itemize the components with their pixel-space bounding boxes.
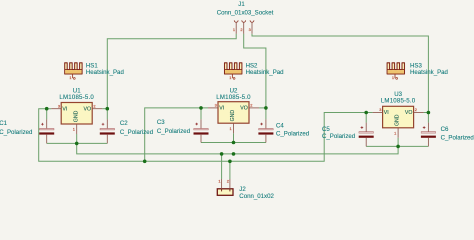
svg-text:3: 3 xyxy=(379,107,381,112)
svg-text:GND: GND xyxy=(395,114,401,126)
heatsink HS3 xyxy=(387,63,404,80)
svg-text:VI: VI xyxy=(219,106,224,112)
capacitor C3 xyxy=(194,119,209,142)
wire C4 top lead xyxy=(265,108,267,120)
svg-text:3: 3 xyxy=(58,103,60,108)
wire C2 top lead xyxy=(106,109,108,120)
pin U1 GND (1) xyxy=(76,124,78,134)
svg-text:C_Polarized: C_Polarized xyxy=(120,129,153,136)
svg-text:2: 2 xyxy=(240,27,242,32)
connector J2 body xyxy=(217,189,233,196)
svg-text:1: 1 xyxy=(218,179,220,184)
wire U3 GND pin to link xyxy=(397,138,399,147)
pin U2 GND (1) xyxy=(233,123,235,133)
junction node U3 VO xyxy=(427,111,431,115)
wire U3 VO pin to node xyxy=(424,112,429,114)
wire C3 top lead xyxy=(200,108,202,120)
svg-text:Conn_01x03_Socket: Conn_01x03_Socket xyxy=(217,10,274,17)
svg-text:C6: C6 xyxy=(441,126,449,133)
junction node U2 GND on ground bus xyxy=(232,152,236,156)
svg-text:2: 2 xyxy=(250,103,252,108)
capacitor C6 xyxy=(421,123,436,147)
pin U2 VI (3) xyxy=(208,107,218,109)
wire ground bus (line B) with end risers xyxy=(77,143,398,154)
svg-text:C3: C3 xyxy=(157,119,165,126)
connector J1 socket pin 3 xyxy=(250,20,254,33)
svg-text:1: 1 xyxy=(392,75,394,80)
svg-text:C1: C1 xyxy=(0,120,8,127)
pin U2 VO (2) xyxy=(249,107,259,109)
svg-text:1: 1 xyxy=(73,127,75,132)
svg-text:VO: VO xyxy=(240,106,248,112)
svg-text:GND: GND xyxy=(73,110,79,122)
wire ground link C1-U1-C2 xyxy=(47,142,108,144)
wire C1 top lead xyxy=(46,109,48,120)
wire J2 pin2 riser to input rail xyxy=(229,161,231,179)
pin U1 VO (2) xyxy=(92,108,102,110)
wire J1 pin3 down-right-down to U3 VO node xyxy=(252,34,428,113)
pin U3 GND (1) xyxy=(397,128,399,138)
pin J2-1 xyxy=(221,179,223,189)
wire ground link C5-U3-C6 xyxy=(366,145,428,147)
junction node C5 top xyxy=(364,111,368,115)
wire VI input rail: U1 VI left, down, bottom bus, up to U3 VI xyxy=(39,109,373,162)
svg-text:2: 2 xyxy=(415,107,417,112)
svg-text:1: 1 xyxy=(229,75,231,80)
svg-text:Heatsink_Pad: Heatsink_Pad xyxy=(246,69,284,76)
svg-text:C_Polarized: C_Polarized xyxy=(157,128,190,135)
junction node J2 pin1 on ground bus xyxy=(220,152,224,156)
svg-text:C_Polarized: C_Polarized xyxy=(0,129,32,136)
junction node U2 VO xyxy=(264,106,268,110)
junction node U1 VO xyxy=(106,107,110,111)
svg-text:VO: VO xyxy=(84,106,92,112)
wire U1 GND pin to link xyxy=(76,134,78,143)
heatsink HS2 xyxy=(225,63,242,80)
svg-text:C2: C2 xyxy=(120,120,128,127)
wire ground link C3-U2-C4 xyxy=(201,142,266,144)
svg-text:2: 2 xyxy=(93,103,95,108)
svg-text:Heatsink_Pad: Heatsink_Pad xyxy=(86,69,124,76)
svg-text:C5: C5 xyxy=(322,126,330,133)
svg-text:J1: J1 xyxy=(238,1,245,8)
regulator U2 body xyxy=(218,102,249,124)
wire U2 VO pin to node xyxy=(259,107,266,109)
wire J1 pin1 down-left-down to U1 VO node xyxy=(107,34,236,109)
connector J1 socket pin 2 xyxy=(242,20,246,33)
svg-text:GND: GND xyxy=(230,110,236,122)
wire U2 VI branch riser xyxy=(145,108,208,161)
svg-text:3: 3 xyxy=(249,27,251,32)
svg-text:VI: VI xyxy=(384,110,389,116)
svg-text:1: 1 xyxy=(233,27,235,32)
wire J1 pin2 down-right-down to U2 VO node xyxy=(244,34,266,108)
junction node C1 top xyxy=(45,107,49,111)
svg-text:J2: J2 xyxy=(239,186,246,193)
pin U3 VO (2) xyxy=(414,112,424,114)
junction node J2 pin2 on input rail xyxy=(228,160,232,164)
wire J2 pin1 riser to ground bus xyxy=(221,154,223,179)
svg-text:LM1085-5.0: LM1085-5.0 xyxy=(59,94,94,101)
junction node U3 GND xyxy=(396,145,400,149)
heatsink HS1 xyxy=(65,63,82,80)
wire C6 top lead xyxy=(427,113,429,123)
wire U1 VO pin to node xyxy=(102,108,107,110)
svg-text:LM1085-5.0: LM1085-5.0 xyxy=(381,98,416,105)
svg-text:Heatsink_Pad: Heatsink_Pad xyxy=(410,69,448,76)
svg-text:LM1085-5.0: LM1085-5.0 xyxy=(216,94,251,101)
connector J1 socket pin 1 xyxy=(234,20,238,33)
svg-text:1: 1 xyxy=(394,130,396,135)
capacitor C2 xyxy=(100,119,115,143)
svg-text:1: 1 xyxy=(69,75,71,80)
svg-text:3: 3 xyxy=(215,103,217,108)
capacitor C5 xyxy=(359,123,374,147)
junction node U2 VI riser on input rail xyxy=(143,160,147,164)
capacitor C1 xyxy=(39,119,54,143)
wire U2 GND pin to link xyxy=(233,133,235,142)
pin U1 VI (3) xyxy=(51,108,61,110)
pin J2-2 xyxy=(229,179,231,189)
svg-text:2: 2 xyxy=(227,179,229,184)
wire C5 top lead xyxy=(365,113,367,123)
capacitor C4 xyxy=(258,119,273,142)
svg-text:Conn_01x02: Conn_01x02 xyxy=(239,193,274,200)
svg-text:VI: VI xyxy=(62,106,67,112)
pin U3 VI (3) xyxy=(373,112,383,114)
regulator U3 body xyxy=(383,106,414,128)
svg-text:C4: C4 xyxy=(276,123,284,130)
svg-text:C_Polarized: C_Polarized xyxy=(276,131,309,138)
svg-text:VO: VO xyxy=(405,110,413,116)
junction node U2 GND xyxy=(232,141,236,145)
svg-text:C_Polarized: C_Polarized xyxy=(441,135,474,142)
svg-text:1: 1 xyxy=(230,126,232,131)
junction node C3 top xyxy=(199,106,203,110)
regulator U1 body xyxy=(61,103,92,125)
junction node U1 GND xyxy=(75,142,79,146)
svg-text:C_Polarized: C_Polarized xyxy=(322,133,355,140)
